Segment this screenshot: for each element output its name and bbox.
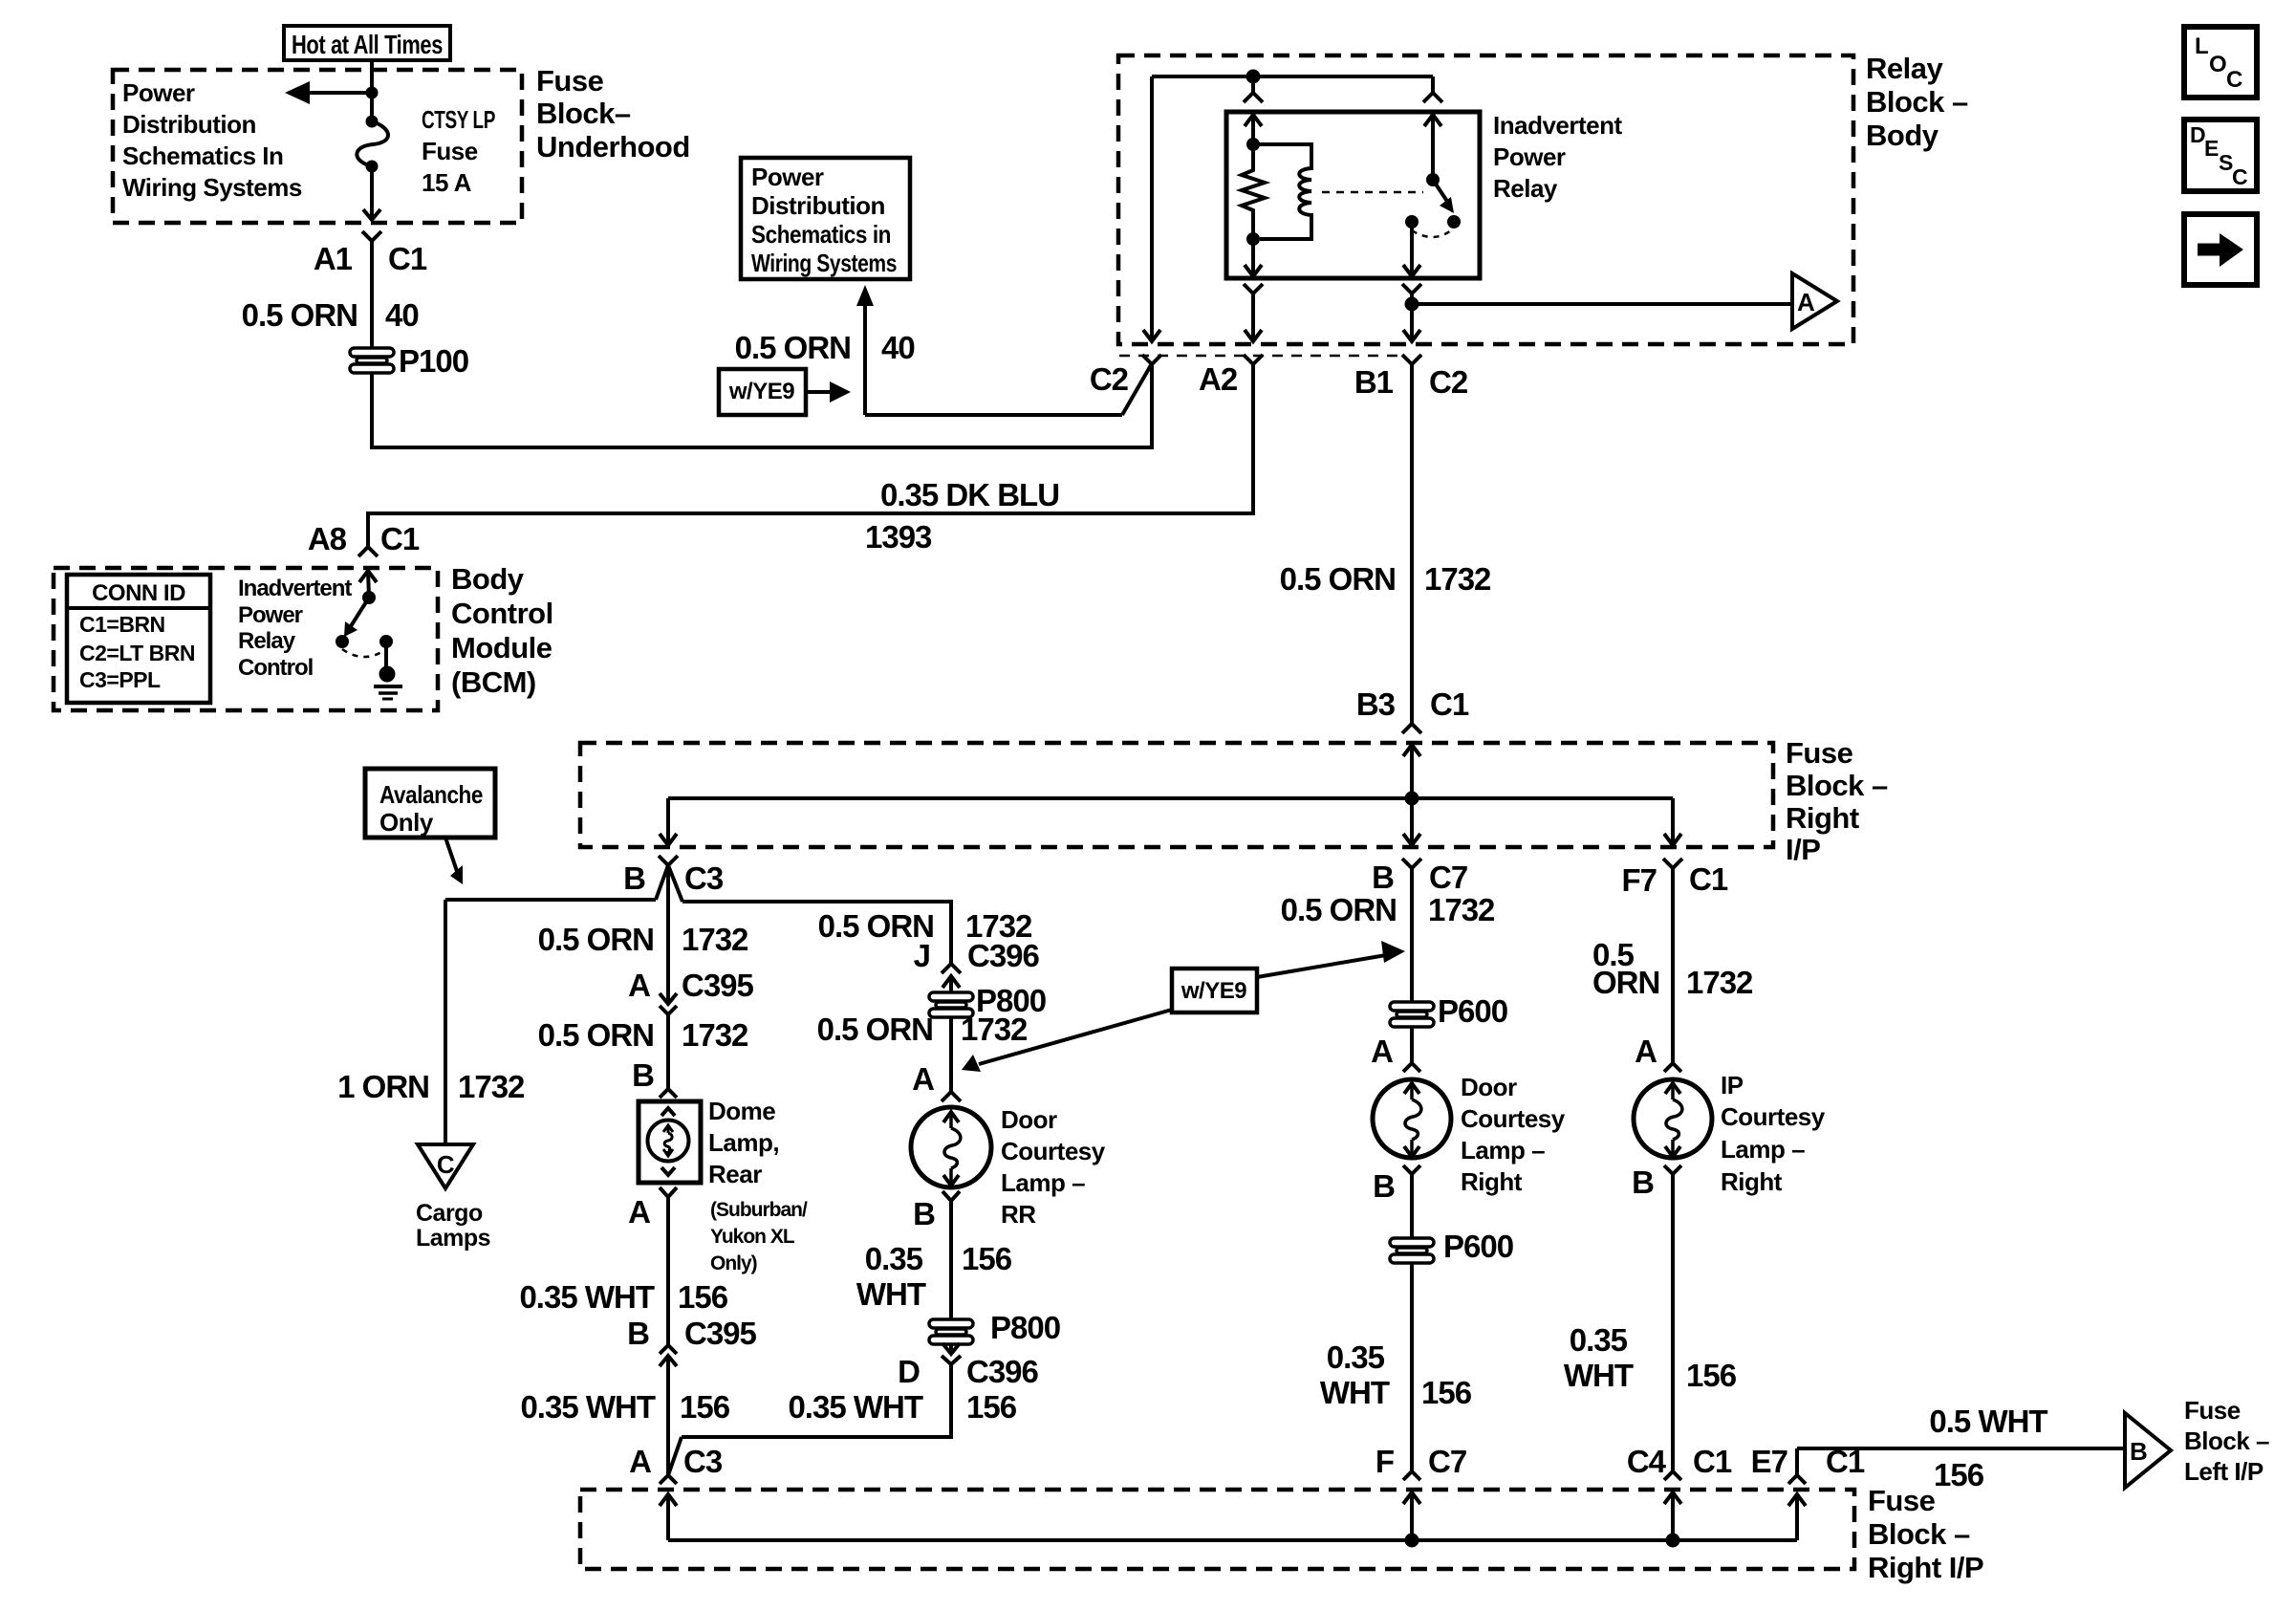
svg-text:0.5 ORN: 0.5 ORN (735, 330, 851, 365)
svg-text:Relay: Relay (238, 628, 296, 654)
svg-text:Fuse: Fuse (1786, 736, 1853, 770)
svg-text:Only): Only) (710, 1252, 757, 1274)
svg-text:A8: A8 (308, 521, 347, 556)
svg-text:0.5 ORN: 0.5 ORN (1281, 892, 1397, 927)
svg-text:B: B (1373, 1168, 1395, 1204)
svg-text:Door: Door (1001, 1105, 1057, 1134)
svg-text:A: A (1371, 1034, 1393, 1069)
svg-text:P100: P100 (399, 343, 468, 379)
svg-text:1732: 1732 (682, 1017, 748, 1053)
svg-text:156: 156 (678, 1279, 728, 1315)
svg-text:Power: Power (238, 602, 303, 628)
svg-text:B3: B3 (1356, 686, 1396, 722)
svg-text:B: B (2130, 1437, 2147, 1466)
svg-text:Distribution: Distribution (751, 191, 885, 220)
svg-text:Lamp –: Lamp – (1461, 1136, 1545, 1165)
svg-text:1732: 1732 (1686, 965, 1753, 1000)
svg-text:1 ORN: 1 ORN (337, 1069, 429, 1104)
svg-text:0.5 ORN: 0.5 ORN (817, 1012, 933, 1047)
svg-text:0.35 WHT: 0.35 WHT (519, 1279, 654, 1315)
svg-text:0.35 DK BLU: 0.35 DK BLU (880, 477, 1059, 512)
svg-text:Module: Module (451, 631, 552, 664)
svg-text:C3: C3 (683, 1444, 723, 1479)
svg-text:Block –: Block – (2184, 1426, 2269, 1455)
svg-text:C4: C4 (1627, 1444, 1667, 1479)
svg-text:Relay: Relay (1493, 174, 1558, 203)
svg-text:1732: 1732 (961, 1012, 1028, 1047)
svg-text:Fuse: Fuse (422, 137, 478, 165)
svg-text:C1: C1 (1693, 1444, 1732, 1479)
svg-text:E7: E7 (1751, 1444, 1787, 1479)
svg-text:156: 156 (1686, 1358, 1737, 1393)
svg-text:0.35: 0.35 (1570, 1322, 1628, 1358)
svg-text:w/YE9: w/YE9 (728, 379, 794, 404)
svg-text:Dome: Dome (708, 1097, 775, 1125)
svg-text:Lamps: Lamps (416, 1225, 490, 1252)
svg-text:0.35 WHT: 0.35 WHT (788, 1389, 922, 1425)
svg-text:156: 156 (1421, 1375, 1472, 1410)
svg-text:A1: A1 (314, 241, 353, 276)
svg-text:Rear: Rear (708, 1160, 762, 1188)
svg-text:WHT: WHT (856, 1276, 926, 1312)
svg-text:40: 40 (385, 297, 419, 333)
svg-text:C7: C7 (1429, 860, 1467, 895)
svg-text:Power: Power (1493, 142, 1566, 171)
svg-text:Yukon XL: Yukon XL (710, 1226, 795, 1248)
svg-text:0.5 ORN: 0.5 ORN (538, 922, 654, 957)
svg-text:C396: C396 (967, 938, 1040, 973)
svg-text:1732: 1732 (1428, 892, 1495, 927)
svg-text:(Suburban/: (Suburban/ (710, 1199, 808, 1221)
svg-text:Cargo: Cargo (416, 1200, 483, 1227)
svg-text:Lamp,: Lamp, (708, 1128, 779, 1157)
svg-text:1732: 1732 (458, 1069, 525, 1104)
svg-text:40: 40 (881, 330, 915, 365)
svg-text:P800: P800 (990, 1310, 1060, 1345)
svg-text:Fuse: Fuse (1868, 1484, 1936, 1517)
svg-text:RR: RR (1001, 1200, 1036, 1229)
svg-text:C2: C2 (1090, 361, 1129, 397)
svg-text:Courtesy: Courtesy (1461, 1104, 1566, 1133)
svg-text:C1: C1 (388, 241, 427, 276)
svg-text:P600: P600 (1438, 993, 1507, 1029)
svg-text:Block –: Block – (1786, 769, 1888, 802)
svg-text:156: 156 (680, 1389, 730, 1425)
svg-text:C: C (2226, 67, 2242, 93)
svg-text:Hot at All Times: Hot at All Times (292, 30, 443, 59)
svg-text:Fuse: Fuse (536, 64, 604, 98)
svg-text:C3=PPL: C3=PPL (79, 667, 161, 692)
svg-text:C1: C1 (380, 521, 420, 556)
svg-text:Control: Control (238, 655, 313, 681)
svg-text:J: J (914, 938, 930, 973)
svg-text:A2: A2 (1199, 361, 1238, 397)
svg-text:CONN ID: CONN ID (92, 580, 185, 606)
svg-text:B: B (627, 1316, 649, 1351)
svg-text:C396: C396 (966, 1354, 1039, 1389)
svg-text:0.5 ORN: 0.5 ORN (538, 1017, 654, 1053)
svg-text:C2=LT BRN: C2=LT BRN (79, 641, 195, 665)
svg-text:B: B (623, 860, 645, 896)
svg-text:P600: P600 (1443, 1229, 1513, 1264)
svg-text:B: B (1372, 860, 1394, 895)
svg-text:B1: B1 (1354, 364, 1394, 400)
svg-text:A: A (912, 1061, 934, 1097)
svg-text:Wiring Systems: Wiring Systems (122, 173, 302, 202)
svg-text:Block –: Block – (1868, 1517, 1970, 1551)
svg-text:(BCM): (BCM) (451, 665, 536, 699)
svg-text:0.5 ORN: 0.5 ORN (1280, 561, 1396, 597)
svg-text:w/YE9: w/YE9 (1180, 978, 1246, 1004)
svg-text:Avalanche: Avalanche (379, 780, 483, 809)
svg-text:A: A (629, 1444, 651, 1479)
svg-text:IP: IP (1721, 1071, 1744, 1099)
svg-text:Inadvertent: Inadvertent (238, 576, 352, 601)
svg-text:Distribution: Distribution (122, 110, 256, 139)
svg-text:1732: 1732 (682, 922, 748, 957)
svg-text:Courtesy: Courtesy (1721, 1102, 1826, 1131)
svg-text:Power: Power (122, 78, 195, 107)
svg-text:C395: C395 (684, 1316, 757, 1351)
svg-text:Body: Body (451, 562, 525, 596)
svg-text:C7: C7 (1428, 1444, 1466, 1479)
svg-text:Fuse: Fuse (2184, 1396, 2241, 1425)
svg-text:156: 156 (962, 1241, 1012, 1276)
svg-text:B: B (1632, 1165, 1654, 1200)
svg-text:15 A: 15 A (422, 168, 472, 197)
svg-text:L: L (2195, 33, 2209, 59)
svg-text:C: C (437, 1150, 455, 1179)
svg-text:E: E (2204, 136, 2219, 161)
svg-text:C1=BRN: C1=BRN (79, 612, 165, 637)
svg-text:Power: Power (751, 163, 824, 191)
svg-text:WHT: WHT (1564, 1358, 1634, 1393)
svg-text:Lamp –: Lamp – (1001, 1168, 1085, 1197)
svg-text:156: 156 (1934, 1457, 1984, 1492)
svg-text:Underhood: Underhood (536, 130, 690, 163)
svg-text:0.5 ORN: 0.5 ORN (242, 297, 357, 333)
svg-text:C2: C2 (1429, 364, 1468, 400)
svg-text:Control: Control (451, 597, 553, 630)
svg-text:C3: C3 (684, 860, 724, 896)
svg-text:Inadvertent: Inadvertent (1493, 111, 1622, 140)
svg-text:C: C (2232, 164, 2248, 189)
svg-text:Block–: Block– (536, 97, 631, 130)
svg-text:Right: Right (1461, 1167, 1523, 1196)
svg-text:ORN: ORN (1592, 965, 1659, 1000)
svg-text:F7: F7 (1621, 862, 1657, 898)
svg-text:1732: 1732 (1424, 561, 1491, 597)
svg-text:WHT: WHT (1320, 1375, 1390, 1410)
svg-text:F: F (1375, 1444, 1394, 1479)
svg-text:Courtesy: Courtesy (1001, 1137, 1106, 1165)
svg-text:A: A (628, 968, 650, 1003)
svg-text:Only: Only (379, 808, 434, 837)
svg-text:A: A (1797, 288, 1815, 316)
svg-text:Wiring Systems: Wiring Systems (751, 249, 897, 277)
svg-text:D: D (898, 1354, 920, 1389)
svg-text:Schematics in: Schematics in (751, 220, 891, 249)
svg-text:I/P: I/P (1786, 833, 1820, 866)
svg-text:Door: Door (1461, 1073, 1517, 1101)
svg-text:Right I/P: Right I/P (1868, 1551, 1983, 1584)
svg-text:B: B (913, 1196, 935, 1231)
svg-text:0.35 WHT: 0.35 WHT (520, 1389, 655, 1425)
svg-text:Schematics In: Schematics In (122, 142, 283, 170)
svg-text:Relay: Relay (1866, 52, 1943, 85)
svg-text:Body: Body (1866, 119, 1939, 152)
svg-text:156: 156 (966, 1389, 1017, 1425)
svg-text:0.35: 0.35 (865, 1241, 923, 1276)
svg-text:C1: C1 (1689, 861, 1728, 897)
svg-text:1393: 1393 (865, 519, 932, 555)
svg-text:C1: C1 (1430, 686, 1469, 722)
svg-text:CTSY LP: CTSY LP (422, 105, 495, 134)
svg-text:O: O (2209, 52, 2227, 77)
svg-text:A: A (628, 1194, 650, 1230)
svg-text:0.5 WHT: 0.5 WHT (1929, 1404, 2047, 1439)
svg-text:Lamp –: Lamp – (1721, 1135, 1805, 1164)
svg-text:Left I/P: Left I/P (2184, 1457, 2264, 1486)
svg-text:B: B (632, 1057, 654, 1093)
svg-text:Right: Right (1721, 1167, 1783, 1196)
svg-text:A: A (1635, 1034, 1657, 1069)
svg-text:0.35: 0.35 (1327, 1339, 1385, 1375)
svg-text:C395: C395 (682, 968, 754, 1003)
svg-text:Block –: Block – (1866, 85, 1968, 119)
svg-text:Right: Right (1786, 801, 1859, 835)
